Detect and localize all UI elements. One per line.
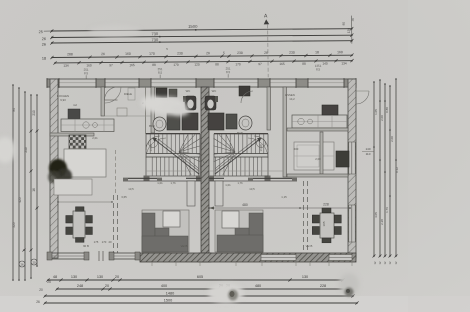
door arc kitchen left unit xyxy=(105,87,118,100)
shower dark left unit xyxy=(156,88,177,98)
svg-text:18: 18 xyxy=(42,57,46,61)
svg-text:17x18: 17x18 xyxy=(149,144,153,152)
svg-text:110: 110 xyxy=(366,152,371,156)
svg-text:26: 26 xyxy=(42,43,46,47)
kitchen counter left unit xyxy=(61,119,114,132)
svg-text:2.00: 2.00 xyxy=(380,115,384,121)
svg-text:25: 25 xyxy=(47,280,51,284)
svg-text:130: 130 xyxy=(71,275,77,279)
bottom dimension line row 4 xyxy=(36,299,358,305)
svg-text:26: 26 xyxy=(264,51,268,55)
svg-text:1.05: 1.05 xyxy=(374,109,378,115)
svg-text:170: 170 xyxy=(102,240,107,244)
svg-text:4.05: 4.05 xyxy=(374,212,378,218)
svg-text:160: 160 xyxy=(337,50,343,54)
dining table right unit xyxy=(312,208,341,243)
interior wall vertical right unit xyxy=(320,132,323,174)
svg-text:90 B: 90 B xyxy=(83,244,89,248)
svg-text:1,76: 1,76 xyxy=(170,181,176,185)
svg-text:165: 165 xyxy=(279,62,285,66)
sideboard left unit xyxy=(54,179,92,195)
interior wall horizontal left unit xyxy=(50,133,94,136)
hall detail left unit xyxy=(105,87,151,116)
svg-text:3,65: 3,65 xyxy=(121,195,127,199)
svg-text:8,5: 8,5 xyxy=(158,71,163,75)
svg-text:9,93: 9,93 xyxy=(60,98,66,102)
svg-text:20: 20 xyxy=(32,261,36,265)
stair flight right unit xyxy=(214,134,269,176)
door arc bath right unit xyxy=(241,91,253,103)
entrance door arc right wall xyxy=(356,91,369,104)
svg-text:165: 165 xyxy=(129,63,135,67)
sink left unit xyxy=(153,117,166,131)
window tag above wall 1 xyxy=(84,64,322,79)
svg-text:130: 130 xyxy=(97,275,103,279)
svg-text:2,00: 2,00 xyxy=(315,157,321,161)
outer wall bottom terrace doors xyxy=(47,251,140,261)
smudge bottom right xyxy=(339,273,359,297)
svg-text:480: 480 xyxy=(242,203,248,207)
fridge dark right unit xyxy=(322,105,338,115)
interior wall horizontal right unit xyxy=(287,128,348,131)
kitchen fittings left unit xyxy=(75,119,104,132)
sofa right unit xyxy=(215,210,263,252)
svg-text:88: 88 xyxy=(302,62,306,66)
svg-text:18: 18 xyxy=(315,50,319,54)
stair annotations xyxy=(149,144,263,185)
room annotation texts xyxy=(57,47,321,248)
appliance dark right unit xyxy=(336,151,349,167)
bottom dimension line row 2 xyxy=(39,284,352,292)
coffee table right unit xyxy=(222,211,239,228)
svg-text:425: 425 xyxy=(18,197,22,203)
sink right unit xyxy=(239,116,252,130)
outer wall bottom main xyxy=(140,253,356,262)
svg-text:120: 120 xyxy=(194,63,200,67)
svg-text:525: 525 xyxy=(12,222,16,228)
svg-text:2.00: 2.00 xyxy=(390,136,394,142)
dark stain blob left unit xyxy=(48,159,72,184)
svg-text:5: 5 xyxy=(223,51,225,55)
door leaf left unit xyxy=(187,181,195,206)
toilet left unit xyxy=(183,96,196,110)
svg-text:730: 730 xyxy=(151,31,158,36)
stair flight left unit xyxy=(146,134,201,176)
bathroom wall right unit xyxy=(267,87,271,130)
outer wall left xyxy=(50,79,58,258)
svg-text:Var B: Var B xyxy=(181,244,188,248)
party wall center xyxy=(199,87,211,262)
hall floor lines right unit xyxy=(146,170,283,172)
svg-text:248: 248 xyxy=(77,284,83,288)
interior dim line left unit xyxy=(57,201,112,202)
right vertical dimension lines xyxy=(362,78,399,264)
svg-text:14,2: 14,2 xyxy=(289,97,295,101)
shower dark right unit xyxy=(239,86,250,96)
svg-text:200: 200 xyxy=(294,147,299,151)
svg-text:88: 88 xyxy=(152,63,156,67)
svg-text:DIELE: DIELE xyxy=(124,92,132,96)
svg-text:0.12: 0.12 xyxy=(395,167,399,173)
svg-text:8,5: 8,5 xyxy=(316,67,321,71)
pantry dashed line left unit xyxy=(115,150,117,195)
svg-text:20: 20 xyxy=(115,275,119,279)
dimension line 730 left xyxy=(42,30,354,41)
svg-text:134: 134 xyxy=(63,64,69,68)
svg-text:8,5: 8,5 xyxy=(84,71,89,75)
svg-text:20: 20 xyxy=(39,288,43,292)
interior wall horizontal 2 right unit xyxy=(287,174,348,177)
hallway wall right unit xyxy=(209,178,297,182)
interior wall kitchen left unit xyxy=(101,87,105,116)
svg-text:m2: m2 xyxy=(73,103,77,107)
svg-text:97: 97 xyxy=(109,63,113,67)
svg-text:730: 730 xyxy=(151,37,158,42)
svg-text:94: 94 xyxy=(12,108,16,112)
svg-text:134: 134 xyxy=(341,61,347,65)
stair hall wall left unit xyxy=(145,87,147,134)
left vertical dimension lines xyxy=(12,84,39,281)
svg-text:170: 170 xyxy=(149,52,155,56)
dimension chain line upper xyxy=(42,50,354,60)
svg-text:Var B: Var B xyxy=(306,244,313,248)
kitchen fittings right unit xyxy=(298,115,332,128)
svg-text:230: 230 xyxy=(177,51,183,55)
svg-text:228: 228 xyxy=(320,284,326,288)
svg-text:1,76: 1,76 xyxy=(237,181,243,185)
white smudge bottom center xyxy=(208,283,244,303)
svg-text:130: 130 xyxy=(302,275,308,279)
svg-text:30: 30 xyxy=(351,18,355,22)
chimney checkered left unit xyxy=(69,135,86,149)
sill ticks below bottom wall xyxy=(152,262,352,266)
white smudge above top lines xyxy=(89,25,141,37)
sofa left unit xyxy=(142,210,189,252)
svg-text:128: 128 xyxy=(347,28,351,34)
paper shading right xyxy=(408,0,470,312)
svg-text:20: 20 xyxy=(105,284,109,288)
island right unit xyxy=(294,142,334,170)
hallway wall left unit xyxy=(123,178,201,182)
svg-text:0.88: 0.88 xyxy=(385,107,389,113)
paper shading bottom xyxy=(0,296,470,312)
svg-text:WC: WC xyxy=(212,89,217,93)
dimension chain line lower xyxy=(53,59,353,68)
dashed line right unit xyxy=(304,181,308,253)
svg-text:8,5: 8,5 xyxy=(226,70,231,74)
svg-text:1,01: 1,01 xyxy=(225,183,231,187)
svg-text:170: 170 xyxy=(235,62,241,66)
svg-text:97: 97 xyxy=(258,62,262,66)
bathroom wall left unit xyxy=(151,87,155,133)
svg-text:13,5: 13,5 xyxy=(249,187,255,191)
top-right rotated labels xyxy=(342,16,355,44)
room dimension line right unit xyxy=(208,203,351,210)
door leaf right unit xyxy=(215,181,223,206)
white smudge bathroom left xyxy=(141,96,189,116)
svg-text:25: 25 xyxy=(39,30,43,34)
svg-text:140: 140 xyxy=(322,62,328,66)
svg-text:1480: 1480 xyxy=(166,292,174,296)
svg-text:88: 88 xyxy=(215,62,219,66)
bottom dimension line row 3 xyxy=(43,292,354,298)
svg-text:1500: 1500 xyxy=(188,24,198,29)
svg-text:BAD: BAD xyxy=(237,131,243,135)
svg-text:1500: 1500 xyxy=(164,299,172,303)
svg-text:26: 26 xyxy=(20,263,24,267)
washer dark left unit B xyxy=(182,113,198,130)
svg-text:160: 160 xyxy=(125,52,131,56)
svg-text:BAD: BAD xyxy=(149,124,155,128)
svg-text:13,5: 13,5 xyxy=(128,187,134,191)
svg-text:105: 105 xyxy=(322,221,326,226)
svg-text:16: 16 xyxy=(32,188,36,192)
svg-text:2,01: 2,01 xyxy=(92,136,98,140)
outer wall top xyxy=(47,78,356,88)
outer wall right xyxy=(348,79,356,258)
svg-text:605: 605 xyxy=(197,275,203,279)
bottom dimension line row 1 xyxy=(46,275,344,284)
svg-text:48: 48 xyxy=(53,275,57,279)
kitchen wall right unit xyxy=(283,87,287,177)
cabinet white left unit xyxy=(64,149,106,177)
svg-text:26: 26 xyxy=(206,51,210,55)
section marker A xyxy=(264,13,270,77)
svg-text:480: 480 xyxy=(255,284,261,288)
svg-text:WC: WC xyxy=(186,89,191,93)
svg-text:140: 140 xyxy=(365,147,370,151)
svg-text:400: 400 xyxy=(161,284,167,288)
svg-text:1.76: 1.76 xyxy=(385,207,389,213)
svg-text:90: 90 xyxy=(342,22,346,26)
svg-text:26: 26 xyxy=(36,300,40,304)
svg-text:2.28: 2.28 xyxy=(380,219,384,225)
svg-text:26: 26 xyxy=(101,52,105,56)
svg-text:175: 175 xyxy=(94,240,99,244)
svg-text:210: 210 xyxy=(32,110,36,116)
svg-text:210: 210 xyxy=(24,147,28,153)
washer dark right unit A xyxy=(208,113,224,130)
svg-text:1,01: 1,01 xyxy=(157,181,163,185)
svg-text:288: 288 xyxy=(67,52,73,56)
svg-text:230: 230 xyxy=(237,51,243,55)
kitchen counter right unit xyxy=(292,115,347,128)
svg-text:26: 26 xyxy=(42,37,46,41)
dining table left unit xyxy=(66,207,93,243)
dimension line 730 right xyxy=(42,36,354,47)
svg-text:1,4: 1,4 xyxy=(203,160,207,164)
terrace dashed line left unit xyxy=(114,195,118,253)
svg-text:170: 170 xyxy=(173,63,179,67)
svg-text:230: 230 xyxy=(289,51,295,55)
dimension line 1500 (top) xyxy=(39,23,354,34)
white smudge left edge xyxy=(0,137,15,163)
stove left unit xyxy=(68,109,80,119)
stair well stubs xyxy=(144,134,271,182)
washer dark right unit B xyxy=(226,114,237,129)
svg-text:20: 20 xyxy=(108,240,112,244)
toilet right unit xyxy=(205,96,218,110)
svg-text:228: 228 xyxy=(323,203,329,207)
coffee table left unit xyxy=(163,211,180,227)
washer dark left unit A xyxy=(167,113,180,130)
svg-text:1,15: 1,15 xyxy=(281,195,287,199)
